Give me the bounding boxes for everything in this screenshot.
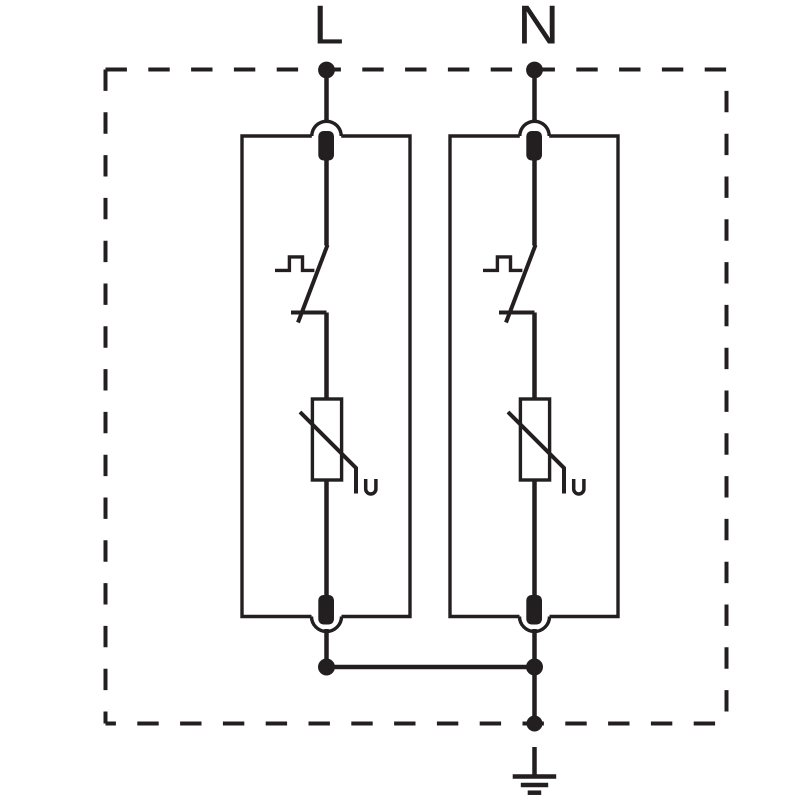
wire top contact to disconnector (N) bbox=[532, 161, 537, 246]
plug-in contact bottom (L module) bbox=[312, 595, 342, 632]
plug-in contact bottom (N module) bbox=[520, 595, 550, 632]
wire bottom contact to PE node (L) bbox=[324, 629, 329, 667]
junction dot (L to PE link) bbox=[318, 659, 335, 676]
dashed enclosure (device boundary) bbox=[106, 70, 727, 724]
svg-text:L: L bbox=[313, 0, 344, 56]
wire N terminal to module bbox=[532, 70, 537, 123]
wire top contact to disconnector (L) bbox=[324, 161, 329, 246]
module box L (plug-in arrester module) bbox=[242, 136, 410, 617]
module box N (plug-in arrester module) bbox=[450, 136, 618, 617]
junction dot (N to PE link) bbox=[526, 659, 543, 676]
node PE at boundary bbox=[527, 716, 543, 732]
value label U (L) bbox=[366, 479, 376, 494]
wire varistor to bottom contact (N) bbox=[532, 480, 537, 596]
wire disconnector to varistor (N) bbox=[532, 313, 537, 401]
wire L terminal to module bbox=[324, 70, 329, 123]
thermal disconnector (N) bbox=[483, 245, 536, 323]
node N bbox=[526, 62, 543, 79]
wire N junction down to boundary bbox=[532, 667, 537, 724]
varistor (N branch) bbox=[508, 399, 564, 494]
svg-text:N: N bbox=[517, 0, 559, 56]
wire disconnector to varistor (L) bbox=[324, 313, 329, 401]
ground (earth) symbol bbox=[513, 747, 557, 793]
value label U (N) bbox=[574, 479, 584, 494]
wire varistor to bottom contact (L) bbox=[324, 480, 329, 596]
varistor (L branch) bbox=[300, 399, 356, 494]
node L bbox=[318, 62, 335, 79]
plug-in contact top (L module) bbox=[312, 121, 341, 160]
thermal disconnector (L) bbox=[275, 245, 328, 323]
plug-in contact top (N module) bbox=[520, 121, 549, 160]
wire PE link between branches bbox=[327, 665, 535, 670]
wire bottom contact to PE node (N) bbox=[532, 629, 537, 667]
